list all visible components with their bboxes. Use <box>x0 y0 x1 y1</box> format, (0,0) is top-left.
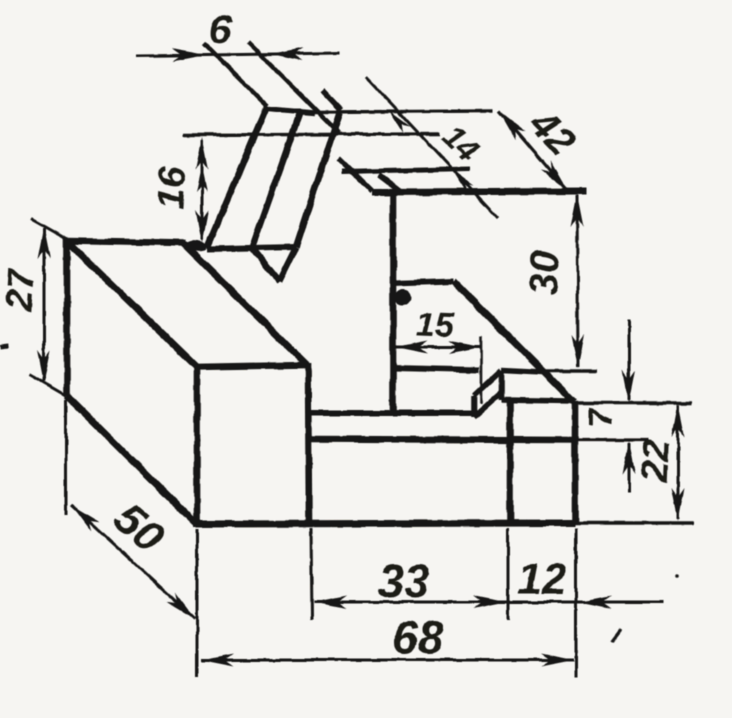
wire step left-face top 45deg edge <box>474 370 502 396</box>
wire step front-left vertical edge <box>507 400 514 523</box>
wire step left-face left vertical edge <box>471 396 477 417</box>
wire notch 45deg edge <box>453 281 574 402</box>
wire ext 42-top H1 <box>314 111 493 112</box>
node fillet blob on wall edge <box>392 287 413 308</box>
wire ext 22-top <box>574 401 692 404</box>
wire ext 6-right L2 <box>248 42 339 133</box>
wire vgroove right rail steep edge SL3 <box>296 113 340 247</box>
wire dim line 15 <box>395 346 481 349</box>
arrowhead dim 22 bottom <box>672 488 685 521</box>
svg-text:27: 27 <box>0 266 42 313</box>
wire ext 6-left L1 <box>204 43 267 106</box>
wire back-left vertical edge A-C <box>64 238 71 396</box>
wire dim line 14 <box>366 77 498 218</box>
wire bottom-left 45deg edge C-E <box>67 396 196 524</box>
arrowhead dim 42 bottom <box>540 161 567 190</box>
wire top-left 45deg edge A-D <box>67 241 197 367</box>
node stray dot right side <box>675 574 679 578</box>
wire vblock top end edge U <box>268 109 314 113</box>
wire vgroove left flank 45deg edge <box>252 248 279 281</box>
arrowhead dim 68 left <box>201 654 234 667</box>
wire vblock left steep edge S1 <box>207 106 267 248</box>
wire ext 33-left <box>311 528 312 620</box>
wire ext 27-bottom <box>29 374 67 396</box>
wire dim line 30 <box>577 195 578 367</box>
node junction blob at pillar top edge <box>186 239 208 253</box>
wire dim line 42 <box>499 111 567 190</box>
arrowhead dim 33 left <box>314 596 347 609</box>
wire shelf front edge <box>309 439 575 440</box>
wire dim line 22 <box>677 405 680 519</box>
wire dim line 68 <box>201 659 574 662</box>
arrowhead dim 7 bottom <box>623 441 636 474</box>
wire pillar right vertical edge F-H <box>308 363 309 523</box>
arrowhead dim 12 right <box>578 596 611 609</box>
wire pillar front-top edge D-F <box>194 365 307 367</box>
svg-text:7: 7 <box>582 406 620 427</box>
wire ramp 45deg edge to wall corner <box>338 158 372 191</box>
wire step top-front edge <box>502 400 572 401</box>
svg-text:22: 22 <box>634 439 677 484</box>
wire ext 68-left <box>196 529 199 677</box>
wire ext 12-left <box>507 528 510 620</box>
svg-text:6: 6 <box>208 7 233 52</box>
wire bottom front edge E-G <box>193 523 575 524</box>
svg-text:12: 12 <box>518 555 567 604</box>
wire vblock bottom end top edge <box>207 247 296 249</box>
wire ext 14-bottom <box>342 169 470 172</box>
wire ext 30-bottom <box>543 369 597 372</box>
wire vgroove left rail steep edge SL2 <box>252 112 300 248</box>
arrowhead dim 14 bottom <box>452 170 473 192</box>
wire vblock top-right 45deg edge <box>322 90 341 110</box>
wire shelf back edge <box>311 410 477 416</box>
arrowhead dim 7 top <box>623 370 636 403</box>
wire ext 50-left <box>65 400 68 515</box>
arrowhead dim 68 right <box>541 654 574 667</box>
wire stray tick at left edge <box>0 346 9 347</box>
arrowhead dim 15 left <box>395 341 428 354</box>
wire front-left vertical edge D-E <box>194 364 201 524</box>
arrowhead dim 16 top <box>196 137 209 170</box>
wire ext 15-right <box>480 337 483 404</box>
arrowhead dim 15 right <box>448 341 481 354</box>
svg-text:15: 15 <box>415 305 455 344</box>
wire dim line 50 <box>71 505 195 619</box>
arrowhead dim 50 top <box>71 505 100 532</box>
arrowhead dim 30 bottom <box>572 335 585 368</box>
svg-text:33: 33 <box>378 555 430 607</box>
wire top-right 45deg edge B-F <box>183 243 307 365</box>
wire right vertical edge <box>572 402 579 523</box>
arrowhead dim 42 top <box>499 111 526 140</box>
wire dim line 33 and 12 <box>314 601 663 604</box>
wire wall left vertical edge <box>390 191 397 413</box>
wire wall top edge <box>372 191 586 192</box>
arrowhead dim 27 bottom <box>38 350 51 383</box>
wire dim line 6 <box>137 53 340 56</box>
svg-text:16: 16 <box>150 165 194 210</box>
arrowhead dim 6 right <box>270 48 303 61</box>
wire dim line 16 <box>201 140 204 240</box>
wire stray tick near 68 label <box>612 630 621 642</box>
wire ext 16-top <box>183 134 440 135</box>
wire step top-back edge <box>502 370 543 372</box>
arrowhead dim 30 top <box>571 194 584 227</box>
arrowhead dim 50 bottom <box>166 592 195 619</box>
svg-text:30: 30 <box>522 250 568 296</box>
wire notch top edge <box>393 281 453 283</box>
wire vgroove apex edge <box>279 247 296 281</box>
arrowhead dim 27 top <box>38 226 51 259</box>
arrowhead dim 16 top second <box>197 166 208 192</box>
arrowhead dim 6 left <box>172 49 205 62</box>
arrowhead dim 14 top <box>389 111 410 133</box>
wire pillar back-top edge A-B <box>67 241 186 243</box>
wire ext 68-right <box>575 528 578 677</box>
wire dim line 7 upper tail <box>628 320 631 400</box>
wire dim line 7 lower tail <box>628 443 631 492</box>
wire step left-face bottom 45deg edge <box>474 392 502 417</box>
arrowhead dim 16 bottom <box>196 210 209 243</box>
wire step left-face right vertical edge <box>499 370 505 400</box>
wire ext 22-bottom <box>575 521 694 524</box>
wire ramp window right edge <box>379 175 400 191</box>
wire dim line 27 <box>43 228 46 381</box>
wire ext 7-bottom <box>575 438 648 441</box>
svg-text:68: 68 <box>392 611 444 663</box>
arrowhead dim 22 top <box>672 404 685 437</box>
wire notch floor edge <box>393 368 479 370</box>
wire ext 27-top <box>31 219 70 241</box>
arrowhead dim 33 right <box>473 596 506 609</box>
